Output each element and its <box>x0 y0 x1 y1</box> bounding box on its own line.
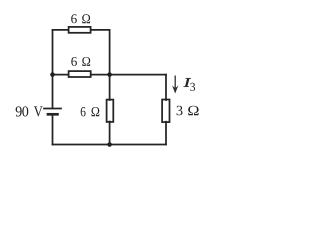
wire bottom rail <box>53 144 167 146</box>
wire top rail right segment <box>91 29 110 31</box>
label battery digit 9 <box>16 106 22 116</box>
resistor R3 6 ohm middle vertical box <box>107 100 114 122</box>
resistor R1 6 ohm top box <box>69 27 91 33</box>
wire middle branch lower (R3 to node C) <box>109 122 111 145</box>
wire right-of-R1 vertical (top corner down to node B) <box>109 30 111 75</box>
label R3 value 6 <box>81 107 86 116</box>
wire middle branch upper (node B to R3) <box>109 75 111 100</box>
wire top rail left segment <box>53 29 69 31</box>
wire row2 left segment <box>53 74 69 76</box>
label R1 value 6 <box>71 14 77 23</box>
label R2 value 6 <box>71 57 77 66</box>
label R3 unit ohm <box>92 107 100 116</box>
wire row2 right segment (node B to right branch corner) <box>110 74 166 76</box>
label battery digit 0 <box>22 106 28 116</box>
label R4 unit ohm <box>188 106 198 116</box>
wire right branch lower (R4 to bottom corner) <box>165 122 167 145</box>
label I3 subscript 3 <box>190 83 195 91</box>
node A junction dot <box>50 72 55 77</box>
label R2 unit ohm <box>82 57 90 66</box>
wire left rail lower (battery - to bottom corner) <box>52 114 54 144</box>
resistor R2 6 ohm row2 box <box>69 71 91 77</box>
node C junction dot <box>107 142 112 147</box>
label R1 unit ohm <box>82 14 90 23</box>
wire right branch upper (corner to R4) <box>165 75 167 100</box>
battery V1 short plate <box>48 113 57 116</box>
label I3 letter I <box>184 78 192 87</box>
label R4 value 3 <box>177 106 183 116</box>
node B junction dot <box>107 72 112 77</box>
battery V1 long plate <box>44 108 61 110</box>
label battery letter V <box>34 106 43 116</box>
wire left rail upper (top corner to node A) <box>52 30 54 75</box>
resistor R4 3 ohm right vertical box <box>162 100 169 123</box>
wire left rail mid (node A to battery +) <box>52 75 54 109</box>
wire row2 mid segment (R2 to node B) <box>91 74 110 76</box>
current arrow I3 <box>172 76 178 94</box>
